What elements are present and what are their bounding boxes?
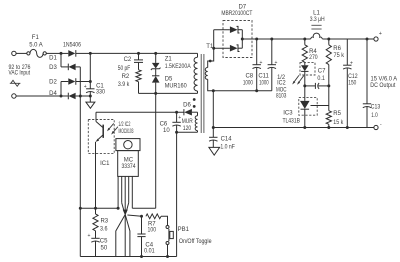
node: C4 bottom junction: [140, 255, 143, 258]
label C11 plus: [275, 60, 278, 66]
label 50: [101, 246, 108, 252]
label MBR20100CT: [221, 11, 252, 17]
svg-text:DC Output: DC Output: [370, 83, 395, 89]
node: output + terminal: [374, 37, 378, 41]
label 3.9 k: [118, 82, 130, 88]
wire: Z1 to D5: [155, 69, 157, 76]
svg-text:D5: D5: [165, 77, 173, 83]
svg-text:MC: MC: [124, 158, 134, 164]
svg-text:C2: C2: [124, 57, 132, 63]
svg-text:270: 270: [309, 55, 318, 61]
label TL431B: [282, 118, 300, 124]
svg-text:+: +: [84, 84, 87, 90]
svg-text:15 k: 15 k: [333, 120, 344, 126]
label R3: [100, 219, 108, 225]
diode D7b: [230, 45, 242, 52]
IC1 pin 2: [122, 176, 125, 211]
wire: drain down to IC1 pin5: [155, 93, 157, 208]
diode D1 1N5406: [61, 50, 90, 57]
wire: primary ground bottom rail: [80, 256, 176, 258]
resistor R3: [93, 208, 98, 231]
label 0.1: [317, 76, 325, 82]
opto LED IC2 (1/2 MOC8103): [301, 65, 309, 86]
label C5: [100, 239, 108, 245]
resistor R7: [146, 214, 161, 219]
node: aux phasing dot: [193, 105, 196, 108]
svg-text:+: +: [87, 233, 90, 239]
IC1 MC33374 package body: [118, 151, 139, 177]
opto transistor IC2 outline: [88, 120, 114, 154]
svg-text:MUR160: MUR160: [165, 84, 188, 90]
label 1/2 (IC2): [277, 75, 286, 81]
label Z1: [165, 57, 173, 63]
label R2: [122, 74, 130, 80]
svg-text:5.0 A: 5.0 A: [29, 43, 43, 49]
svg-text:50 pF: 50 pF: [118, 66, 131, 72]
label C12 plus: [350, 60, 353, 66]
svg-text:1000: 1000: [243, 80, 254, 86]
svg-text:C13: C13: [371, 104, 381, 110]
wire: TL431 reference: [311, 105, 329, 107]
label C11 value 1000: [259, 80, 269, 86]
label C6: [160, 122, 168, 128]
wire: output rail after L1: [322, 38, 374, 40]
wire: D7 cathode join: [241, 30, 243, 49]
svg-text:C7: C7: [318, 69, 326, 75]
svg-text:MBR20100CT: MBR20100CT: [221, 11, 252, 17]
label 330: [96, 90, 106, 96]
resistor R5: [326, 111, 331, 128]
label C1 plus: [84, 84, 87, 90]
svg-text:3.3 μH: 3.3 μH: [310, 17, 325, 23]
node: R3 top junction: [94, 207, 97, 210]
node: secondary phasing dot: [209, 60, 212, 63]
svg-text:D2: D2: [49, 80, 57, 86]
wire: output bottom rail: [213, 127, 374, 129]
svg-text:D7: D7: [238, 5, 246, 11]
wire: aux bottom lead: [177, 131, 198, 133]
capacitor C5: [91, 231, 99, 257]
node: return row left: [212, 89, 215, 92]
node: C6 bottom junction: [175, 131, 178, 134]
svg-text:C8: C8: [245, 73, 253, 79]
label 33374: [122, 164, 137, 170]
diode D6 MUR120: [184, 109, 198, 116]
opto transistor IC2 (1/2 MOC8103): [96, 112, 104, 208]
label MUR: [182, 119, 194, 125]
label 92 to 276: [9, 65, 32, 71]
wire: pin1 row: [80, 207, 118, 209]
inductor L1: [311, 25, 323, 39]
label 50 pF: [118, 66, 131, 72]
label C7: [318, 69, 326, 75]
transformer T1 primary winding: [194, 53, 197, 93]
wire: pin5 jog to drain: [132, 207, 155, 209]
diode D5 MUR160: [152, 76, 160, 94]
svg-text:C6: C6: [160, 122, 168, 128]
svg-text:R6: R6: [333, 46, 341, 52]
svg-text:IC3: IC3: [283, 111, 293, 117]
node: C4 top junction: [140, 215, 143, 218]
svg-text:MOC8103: MOC8103: [119, 129, 134, 135]
svg-text:D6: D6: [183, 102, 191, 108]
label IC2: [277, 80, 286, 86]
svg-text:1.5KE200A: 1.5KE200A: [165, 64, 191, 70]
svg-text:Z1: Z1: [165, 57, 173, 63]
label 75 k: [334, 53, 345, 59]
svg-text:33374: 33374: [122, 164, 137, 170]
shunt regulator IC3 TL431B outline: [299, 98, 317, 116]
svg-text:D4: D4: [49, 91, 57, 97]
node: bridge input bottom junction: [60, 95, 63, 98]
node: TL431 anode junction: [303, 126, 306, 129]
capacitor C14: [209, 137, 217, 147]
node: rectified + junction: [89, 52, 92, 55]
svg-text:1N5406: 1N5406: [63, 42, 82, 48]
wire: top rail to transformer: [90, 52, 197, 54]
svg-text:L1: L1: [313, 11, 320, 17]
label C5 plus: [87, 233, 90, 239]
label D7: [238, 5, 246, 11]
svg-text:MOC: MOC: [276, 88, 287, 94]
label 1.5KE200A: [165, 64, 191, 70]
svg-text:D1: D1: [49, 55, 57, 61]
node: negative rail junction: [79, 95, 82, 98]
label 10: [163, 128, 170, 134]
rectifier D7 package outline: [223, 21, 252, 58]
svg-text:1.0: 1.0: [371, 113, 378, 119]
wire: R7 to PB1: [161, 216, 168, 225]
node: C8 bottom junction: [255, 89, 258, 92]
svg-text:IC1: IC1: [100, 161, 110, 167]
node: R5 bottom junction: [327, 126, 330, 129]
capacitor C1: [86, 89, 94, 96]
label C14: [221, 137, 233, 143]
label R4: [309, 49, 317, 55]
svg-text:C5: C5: [100, 239, 108, 245]
svg-text:1/2 IC2: 1/2 IC2: [118, 122, 130, 128]
wire: x61 upper segment: [60, 53, 62, 67]
label D4: [49, 91, 57, 97]
capacitor C13: [363, 39, 371, 128]
node: C13 tap: [366, 38, 369, 41]
wire: primary ground right leg: [176, 132, 178, 256]
svg-text:TL431B: TL431B: [282, 118, 300, 124]
diode D2: [61, 78, 90, 85]
shunt regulator IC3 TL431B: [300, 101, 310, 128]
label 270: [309, 55, 318, 61]
svg-text:MUR: MUR: [182, 119, 194, 125]
svg-text:150: 150: [348, 80, 357, 86]
svg-text:C12: C12: [348, 74, 358, 80]
wire: star ground left leg: [116, 215, 125, 257]
capacitor C4: [137, 216, 145, 256]
node: R4 tap: [303, 38, 306, 41]
label 150: [348, 80, 357, 86]
wire: secondary return row: [213, 90, 271, 92]
svg-text:VAC Input: VAC Input: [9, 71, 31, 77]
ground (primary, below C1): [86, 96, 95, 108]
svg-text:330: 330: [96, 90, 106, 96]
label D6: [183, 102, 191, 108]
label C13: [371, 104, 381, 110]
label 3.3 uH: [310, 17, 325, 23]
opto LED light arrows: [292, 75, 304, 84]
label L1: [313, 11, 320, 17]
opto transistor light arrows: [107, 123, 118, 134]
node: drain junction: [154, 92, 157, 95]
transformer T1 auxiliary winding: [195, 112, 197, 132]
svg-text:+: +: [379, 31, 382, 37]
label R5: [333, 111, 341, 117]
node: PB1 bottom junction: [166, 255, 169, 258]
wire: star ground right leg: [125, 215, 130, 257]
label DC Output: [370, 83, 395, 89]
node: LED cathode junction: [303, 84, 306, 87]
label PB1: [178, 227, 190, 233]
wire: x61 lower segment: [60, 82, 62, 97]
transformer T1 core: [201, 54, 204, 133]
label 1.0: [371, 113, 378, 119]
wire: R2 bottom to clamp rail: [138, 82, 140, 94]
svg-text:R5: R5: [333, 111, 341, 117]
wire: positive rail x90 down: [89, 53, 91, 88]
wire: C14 drop: [212, 91, 214, 138]
label On/Off Toggle: [179, 239, 212, 245]
zener Z1 1.5KE200A: [151, 53, 161, 70]
label D2: [49, 80, 57, 86]
label 100: [148, 228, 157, 234]
capacitor C7: [305, 83, 329, 89]
transformer T1 secondary winding: [205, 68, 207, 80]
node: C7/divider junction: [327, 84, 330, 87]
svg-text:100: 100: [148, 228, 157, 234]
svg-text:15 V/6.0 A: 15 V/6.0 A: [371, 77, 398, 83]
resistor R4: [302, 39, 307, 65]
label IC3: [283, 111, 293, 117]
node: pin1 row rail junction: [79, 207, 82, 210]
node: D2 cathode junction: [89, 80, 92, 83]
capacitor C11: [268, 39, 276, 91]
label F1: [32, 35, 40, 41]
label D5: [165, 77, 173, 83]
label T1: [206, 44, 214, 50]
label 120: [183, 126, 192, 132]
label output minus: [380, 122, 382, 128]
diode D7a: [230, 26, 242, 33]
label C2: [124, 57, 132, 63]
label C11: [258, 73, 269, 79]
svg-text:-: -: [380, 122, 382, 128]
capacitor C8: [253, 39, 261, 91]
opto LED IC2 outline: [300, 63, 315, 75]
node: C2 branch tap: [137, 52, 140, 55]
IC1 MC33374 package tab: [116, 139, 140, 151]
svg-text:75 k: 75 k: [334, 53, 345, 59]
label C1: [96, 84, 104, 90]
svg-text:D3: D3: [49, 65, 57, 71]
svg-text:+: +: [350, 60, 353, 66]
wire: D7 anode rail: [214, 30, 230, 49]
svg-text:0.1: 0.1: [317, 76, 325, 82]
svg-text:3.9 k: 3.9 k: [118, 82, 130, 88]
node: bridge input top junction: [60, 52, 63, 55]
svg-text:R3: R3: [100, 219, 108, 225]
wire: star ground mid leg: [124, 215, 126, 257]
wire: secondary top lead: [208, 30, 214, 68]
resistor R2: [136, 70, 141, 82]
node: C8 tap: [255, 38, 258, 41]
capacitor C12: [343, 39, 351, 128]
node: primary phasing dot: [193, 98, 196, 101]
node: Z1 branch tap: [154, 52, 157, 55]
wire: LED to TL431: [304, 86, 306, 101]
label 15 k: [333, 120, 344, 126]
svg-text:PB1: PB1: [178, 227, 190, 233]
label 1/2 IC2: [118, 122, 130, 128]
label C8: [245, 73, 253, 79]
node: C12 bottom junction: [346, 126, 349, 129]
IC1 pin 5: [131, 176, 133, 208]
AC source symbol: [10, 80, 21, 86]
label MC: [124, 158, 134, 164]
node: ground star blob: [123, 210, 128, 216]
node: C11 tap: [270, 38, 273, 41]
label MOC8103: [119, 129, 134, 135]
resistor R6: [326, 39, 331, 65]
label IC1: [100, 161, 110, 167]
label VAC Input: [9, 71, 31, 77]
wire: secondary bottom lead: [208, 79, 214, 90]
svg-text:8103: 8103: [276, 94, 287, 100]
svg-text:+: +: [259, 60, 262, 66]
label 8103: [276, 94, 287, 100]
capacitor C2: [134, 53, 143, 69]
label 3.6: [100, 227, 108, 233]
svg-text:50: 50: [101, 246, 108, 252]
node: C6 top junction: [175, 111, 178, 114]
node: D7 anode tap: [212, 47, 215, 50]
svg-text:F1: F1: [32, 35, 40, 41]
svg-text:On/Off Toggle: On/Off Toggle: [179, 239, 212, 245]
wire: divider mid rail: [328, 65, 330, 111]
label C6 plus: [178, 115, 181, 121]
wire: clamp bottom rail (drain): [139, 92, 198, 94]
wire: negative rail x80: [79, 67, 81, 257]
node: C1 bottom junction: [89, 95, 92, 98]
node: pin1 corner: [117, 207, 120, 210]
IC1 pin 3: [124, 176, 126, 211]
label MUR160: [165, 84, 188, 90]
wire: terminal to fuse: [16, 52, 27, 54]
svg-text:1000: 1000: [259, 80, 269, 86]
svg-text:C14: C14: [221, 137, 233, 143]
label output plus: [379, 31, 382, 37]
IC1 pin 4: [126, 176, 128, 211]
svg-text:3.6: 3.6: [100, 227, 108, 233]
ground (below C14): [209, 147, 220, 155]
node: AC input top terminal: [12, 51, 16, 55]
svg-text:10: 10: [163, 128, 170, 134]
label 5.0 A: [29, 43, 43, 49]
label C4: [145, 243, 153, 249]
label MOC: [276, 88, 287, 94]
svg-text:0.01: 0.01: [144, 249, 155, 255]
node: D7 output junction: [241, 38, 244, 41]
label C8 value 1000: [243, 80, 254, 86]
svg-text:IC2: IC2: [277, 80, 286, 86]
svg-text:R2: R2: [122, 74, 130, 80]
node: return-rail junction: [212, 126, 215, 129]
svg-text:120: 120: [183, 126, 192, 132]
switch PB1: [166, 226, 173, 257]
label 0.01: [144, 249, 155, 255]
node: output - terminal: [374, 125, 378, 129]
wire: D4 to C1 bottom: [80, 95, 90, 97]
wire: bottom terminal to bridge: [16, 95, 61, 97]
IC1 pin 1: [117, 176, 119, 208]
svg-text:1.0 nF: 1.0 nF: [220, 144, 235, 150]
wire: fuse to bridge: [46, 52, 61, 54]
label D3: [49, 65, 57, 71]
node: AC input bottom terminal: [12, 94, 16, 98]
diode D3: [61, 64, 80, 71]
label D1: [49, 55, 57, 61]
label C12: [348, 74, 358, 80]
node: R6 tap: [327, 38, 330, 41]
diode D4: [61, 93, 80, 100]
label 1N5406: [63, 42, 82, 48]
label C8 plus: [259, 60, 262, 66]
label 1.0 nF: [220, 144, 235, 150]
fuse F1: [27, 49, 47, 57]
label 15 V/6.0 A: [371, 77, 398, 83]
label R6: [333, 46, 341, 52]
svg-text:+: +: [275, 60, 278, 66]
capacitor C6: [172, 112, 180, 132]
wire: blob to C4: [127, 215, 141, 216]
label R7: [148, 222, 156, 228]
wire: opto collector / Vcc rail: [96, 111, 184, 113]
wire: output rail before L1: [242, 38, 310, 40]
svg-text:C11: C11: [258, 73, 269, 79]
